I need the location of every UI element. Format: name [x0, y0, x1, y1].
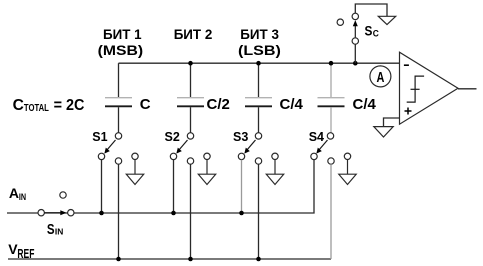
wire S2 throw-b to VREF: [190, 164, 192, 259]
node dot rail-C2: [188, 61, 193, 66]
capacitor C4: [318, 63, 345, 133]
wire comparator plus input to ground: [384, 118, 401, 127]
ground comparator: [374, 127, 393, 137]
label БИТ 2: [174, 26, 213, 42]
wire SC throw to ground: [355, 4, 387, 16]
capacitor C1: [105, 63, 132, 133]
svg-text:S2: S2: [165, 130, 180, 144]
svg-text:S: S: [47, 221, 55, 238]
label CTOTAL = 2C: [13, 97, 85, 114]
svg-text:= 2C: = 2C: [54, 97, 85, 114]
switch S3: [233, 130, 278, 164]
node dot S1-VREF: [116, 257, 121, 262]
svg-text:S: S: [365, 23, 373, 39]
node dot S2-AIN: [171, 211, 176, 216]
switch S2: [165, 130, 211, 164]
wire S4 throw-b to VREF: [330, 164, 332, 259]
wire S1 throw-b to VREF: [118, 164, 120, 259]
ground S1: [126, 160, 143, 185]
svg-text:БИТ 1: БИТ 1: [103, 26, 142, 42]
ground S4: [339, 160, 356, 185]
node A: [370, 66, 391, 87]
node dot rail-C3: [256, 61, 261, 66]
switch S4: [309, 130, 351, 164]
svg-text:S3: S3: [233, 130, 248, 144]
wire AIN bus: [7, 160, 314, 213]
node dot S3-VREF: [256, 257, 261, 262]
ground SC: [378, 16, 395, 24]
svg-text:C/2: C/2: [207, 96, 230, 113]
node dot S1-AIN: [99, 211, 104, 216]
node dot S3-AIN: [239, 211, 244, 216]
svg-text:IN: IN: [55, 228, 63, 237]
svg-text:A: A: [377, 69, 385, 86]
svg-text:C: C: [13, 97, 24, 114]
svg-text:C/4: C/4: [280, 96, 304, 113]
svg-text:C/4: C/4: [353, 96, 377, 113]
wire comparator output: [458, 88, 477, 90]
capacitor C2: [177, 63, 204, 133]
node dot rail-C4: [329, 61, 334, 66]
svg-text:C: C: [373, 29, 380, 39]
svg-text:(LSB): (LSB): [238, 42, 281, 58]
wire S1 throw-a to AIN: [101, 160, 103, 213]
ground S3: [266, 160, 283, 185]
wire node-A top rail: [119, 62, 401, 64]
op-amp comparator U1: [400, 52, 459, 124]
label БИТ 1 (MSB): [98, 26, 144, 58]
node dot S2-VREF: [188, 257, 193, 262]
switch S1: [92, 130, 138, 164]
svg-text:БИТ 2: БИТ 2: [174, 26, 213, 42]
node dot rail-SC: [353, 61, 358, 66]
svg-text:A: A: [9, 185, 19, 201]
wire S2 throw-a to AIN: [173, 160, 175, 213]
label БИТ 3 (LSB): [238, 26, 281, 58]
wire VREF bus: [8, 258, 331, 260]
wire S3 throw-a to AIN: [241, 160, 243, 213]
svg-text:TOTAL: TOTAL: [24, 103, 49, 114]
svg-text:C: C: [140, 96, 151, 113]
svg-text:IN: IN: [19, 192, 26, 203]
svg-text:БИТ 3: БИТ 3: [240, 26, 279, 42]
wire S3 throw-b to VREF: [258, 164, 260, 259]
wire SC pole to rail: [354, 44, 356, 63]
capacitor C3: [245, 63, 272, 133]
switch SIN: [38, 192, 74, 216]
svg-text:REF: REF: [17, 247, 34, 261]
ground S2: [198, 160, 215, 185]
svg-text:S1: S1: [92, 130, 107, 144]
svg-text:S4: S4: [309, 130, 324, 144]
svg-text:(MSB): (MSB): [98, 42, 144, 58]
switch SC: [337, 13, 379, 44]
